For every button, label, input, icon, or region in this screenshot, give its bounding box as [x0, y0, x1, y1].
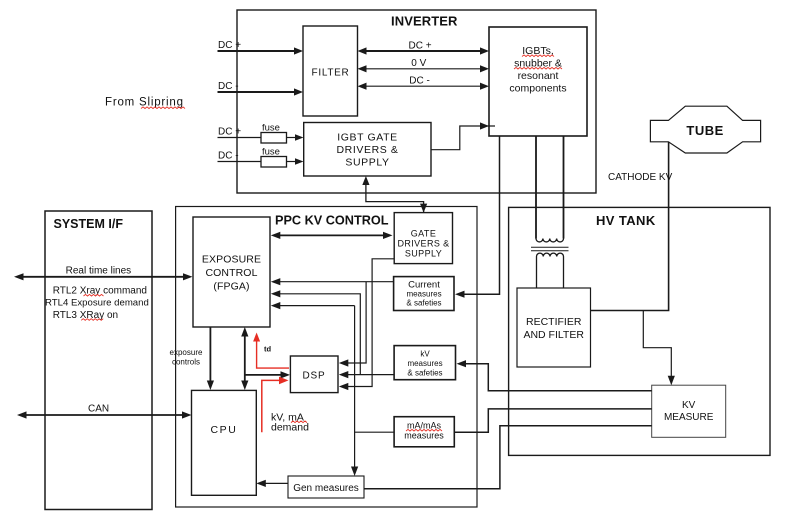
svg-text:IGBT GATE: IGBT GATE — [337, 132, 397, 144]
fuse F1 — [261, 133, 287, 144]
wire FPGA-CPU bidirectional — [244, 333, 246, 382]
block GATE DRIVERS & SUPPLY — [394, 213, 452, 264]
wire DC- through fuse to IGBT gate drivers — [218, 161, 262, 163]
svg-text:RTL2 Xray command: RTL2 Xray command — [53, 286, 147, 297]
svg-text:DC +: DC + — [409, 40, 432, 51]
block U-IGBTs snubber & resonant components — [489, 27, 587, 136]
svg-text:DC +: DC + — [218, 127, 241, 138]
block IGBT GATE DRIVERS & SUPPLY — [304, 123, 431, 177]
block CPU — [192, 390, 257, 495]
svg-text:CATHODE KV: CATHODE KV — [608, 172, 673, 183]
red wire td DSP to FPGA — [257, 338, 289, 368]
block RECTIFIER AND FILTER — [517, 288, 591, 367]
wire exposure controls FPGA to CPU — [209, 327, 211, 382]
wire IGBTs to transformer primary left — [535, 136, 537, 239]
svg-text:DC -: DC - — [218, 81, 239, 92]
transformer T1 core — [531, 246, 569, 248]
svg-text:SUPPLY: SUPPLY — [405, 249, 442, 259]
wire DC- into FILTER — [218, 91, 297, 93]
wire DC- bus FILTER to IGBTs — [364, 85, 482, 87]
svg-text:CAN: CAN — [88, 404, 109, 415]
svg-text:MEASURE: MEASURE — [664, 412, 714, 423]
svg-text:fuse: fuse — [262, 123, 280, 134]
wire mA/mAs measures to FPGA and Gen measures — [355, 306, 395, 470]
spellcheck squiggle under Xray — [84, 294, 104, 296]
svg-text:CONTROL: CONTROL — [205, 267, 257, 279]
svg-text:& safeties: & safeties — [406, 299, 441, 308]
svg-text:GATE: GATE — [411, 229, 436, 239]
wire kV measures feed from KV MEASURE — [463, 364, 652, 391]
svg-text:demand: demand — [271, 421, 309, 433]
svg-text:RTL4 Exposure demand: RTL4 Exposure demand — [45, 297, 149, 308]
block EXPOSURE CONTROL (FPGA) — [193, 217, 270, 327]
svg-text:DC -: DC - — [409, 75, 430, 86]
label Current measures & safeties — [406, 280, 441, 308]
svg-text:measures: measures — [406, 290, 441, 299]
block Gen measures — [288, 476, 364, 498]
label mA/mAs measures — [404, 421, 444, 441]
svg-text:& safeties: & safeties — [407, 369, 442, 378]
block TUBE — [650, 106, 760, 153]
svg-text:DRIVERS &: DRIVERS & — [337, 144, 399, 156]
svg-text:DC +: DC + — [218, 40, 241, 51]
svg-text:td: td — [264, 345, 271, 354]
svg-text:PPC KV CONTROL: PPC KV CONTROL — [275, 214, 389, 228]
red wire kV mA demand to DSP — [262, 380, 281, 432]
svg-text:DRIVERS &: DRIVERS & — [397, 239, 449, 249]
wire IGBTs output to Current measures — [462, 136, 500, 294]
wire Real time lines (bidirectional) — [21, 276, 186, 278]
block mA/mAs measures — [394, 417, 454, 447]
wire mA/mAs measures feed from KV MEASURE — [454, 409, 651, 432]
block PPC KV CONTROL (outer box) — [176, 207, 477, 508]
wire transformer secondary to rectifier (left) — [536, 257, 538, 289]
svg-text:kV: kV — [420, 350, 430, 359]
svg-text:Real time lines: Real time lines — [66, 265, 132, 276]
wire Gen measures to CPU — [262, 482, 288, 484]
label IGBTs snubber resonant components — [509, 45, 566, 95]
svg-text:SUPPLY: SUPPLY — [345, 157, 389, 169]
wire cathode TUBE to rectifier — [591, 142, 669, 311]
svg-text:CPU: CPU — [211, 424, 238, 436]
svg-text:INVERTER: INVERTER — [391, 14, 458, 29]
svg-text:HV TANK: HV TANK — [596, 213, 656, 228]
wire rectifier branch to KV MEASURE — [643, 311, 671, 380]
wire transformer secondary to rectifier (right) — [563, 257, 565, 289]
label IGBT GATE DRIVERS & SUPPLY — [337, 132, 399, 169]
svg-text:measures: measures — [404, 431, 444, 441]
svg-text:KV: KV — [682, 400, 696, 411]
spellcheck squiggle under snubber & — [514, 67, 562, 69]
block FILTER — [303, 26, 358, 116]
transformer T1 secondary winding — [537, 253, 564, 256]
svg-text:fuse: fuse — [262, 147, 280, 158]
wire CPU junction to DSP — [245, 374, 283, 376]
wire Gen measures feed from KV MEASURE — [364, 426, 652, 489]
svg-text:controls: controls — [172, 358, 200, 367]
label kV measures & safeties — [407, 350, 442, 378]
svg-text:RECTIFIER: RECTIFIER — [526, 316, 582, 328]
block DSP — [290, 356, 338, 393]
label EXPOSURE CONTROL (FPGA) — [202, 254, 261, 293]
wire DC+ bus FILTER to IGBTs (double arrow) — [364, 50, 482, 52]
wire DC+ into FILTER — [218, 50, 297, 52]
svg-text:resonant: resonant — [518, 70, 559, 82]
svg-text:exposure: exposure — [170, 348, 203, 357]
svg-text:RTL3 XRay on: RTL3 XRay on — [53, 310, 118, 321]
block Current measures & safeties — [394, 277, 454, 311]
block kV measures & safeties — [394, 346, 455, 380]
wire Current measures to FPGA and DSP — [278, 281, 394, 283]
svg-text:DC -: DC - — [218, 151, 239, 162]
wire kV measures to DSP and FPGA — [346, 374, 394, 376]
wire IGBT gate drivers output to IGBTs — [431, 126, 495, 150]
block INVERTER (outer box) — [237, 10, 596, 193]
label KV MEASURE — [664, 400, 714, 423]
transformer T1 primary winding — [536, 239, 564, 242]
spellcheck squiggle under mA/mAs — [406, 429, 442, 431]
block KV MEASURE — [652, 385, 726, 437]
wire gate supply link (PPC gate drivers to IGBT gate drivers) — [366, 182, 424, 213]
wire GATE DRIVERS box to DSP — [346, 259, 394, 387]
wire DC+ through fuse to IGBT gate drivers — [218, 137, 262, 139]
spellcheck squiggle under XRay — [81, 319, 103, 321]
wire 0V bus FILTER to IGBTs — [364, 68, 482, 70]
svg-text:(FPGA): (FPGA) — [213, 281, 249, 293]
svg-text:TUBE: TUBE — [686, 123, 723, 138]
label RECTIFIER AND FILTER — [523, 316, 584, 341]
svg-text:measures: measures — [407, 359, 442, 368]
block HV TANK (outer box) — [509, 207, 770, 455]
block SYSTEM I/F — [45, 211, 152, 510]
spellcheck squiggle under mA — [291, 421, 307, 423]
label exposure controls — [170, 348, 203, 367]
svg-text:SYSTEM I/F: SYSTEM I/F — [54, 217, 124, 231]
svg-text:Gen measures: Gen measures — [293, 483, 359, 494]
svg-text:DSP: DSP — [303, 371, 326, 382]
svg-text:snubber &: snubber & — [514, 58, 562, 70]
svg-text:From Slipring: From Slipring — [105, 97, 184, 109]
spellcheck squiggle under Slipring — [141, 107, 185, 109]
wire EXPOSURE to GATE DRIVERS (double arrow) — [278, 234, 386, 236]
svg-text:AND FILTER: AND FILTER — [523, 329, 584, 341]
svg-text:FILTER: FILTER — [312, 68, 350, 79]
svg-text:EXPOSURE: EXPOSURE — [202, 254, 261, 266]
fuse F2 — [261, 157, 287, 168]
wire CAN (bidirectional) — [24, 414, 185, 416]
svg-text:components: components — [509, 83, 566, 95]
svg-text:0 V: 0 V — [411, 58, 426, 69]
spellcheck squiggle under IGBTs, — [522, 55, 554, 57]
label GATE DRIVERS & SUPPLY — [397, 229, 449, 259]
wire IGBTs to transformer primary right — [563, 136, 565, 239]
